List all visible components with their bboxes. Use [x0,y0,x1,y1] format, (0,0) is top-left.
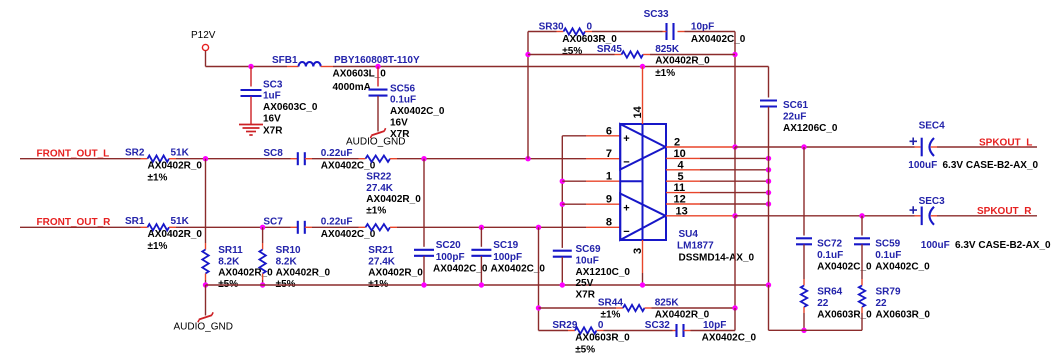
svg-text:6.3V CASE-B2-AX_0: 6.3V CASE-B2-AX_0 [955,240,1051,251]
svg-text:0.1uF: 0.1uF [817,250,843,261]
capacitor SC8 (0.22uF AX0402C_0) [263,148,375,172]
svg-text:10pF: 10pF [691,21,714,32]
wire SPKOUT_R down to SC59 [861,216,863,236]
svg-text:0.1uF: 0.1uF [875,250,901,261]
junction on power line at U4 pin 14 [640,64,645,69]
wire SC69 bottom to rail [561,257,563,285]
wire FRONT_OUT_L left [20,158,141,160]
svg-text:825K: 825K [655,297,680,308]
resistor SR45 (825K AX0402R_0 +/-1%) [597,44,710,79]
resistor SR79 (22 AX0603R_0) [859,279,931,321]
wire SC59 to SR79 [861,244,863,279]
U4 pin 13 output [666,205,735,217]
wire SR22 to U4 pin 7 [397,158,586,160]
svg-text:12: 12 [674,194,686,206]
svg-text:AX0603R_0: AX0603R_0 [876,310,931,321]
junction rail at SC19 [479,282,484,287]
svg-text:AX0402R_0: AX0402R_0 [366,194,421,205]
svg-text:0: 0 [587,21,593,32]
svg-text:7: 7 [606,148,612,160]
svg-text:SR11: SR11 [218,245,243,256]
svg-text:0: 0 [598,320,604,331]
junction rail at SR10 [260,282,265,287]
svg-text:22: 22 [817,298,829,309]
capacitor SC3 (1uF AX0603C_0 16V X7R) [241,67,318,137]
U4 pin 5 [666,171,769,183]
svg-text:0.22uF: 0.22uF [321,148,353,159]
svg-text:0.1uF: 0.1uF [390,95,416,106]
wire SC19 top [480,227,482,247]
op-amp U4 (LM1877 DSSMD14-AX_0) [620,124,754,263]
resistor SR11 (8.2K AX0402R_0 +/-5%) [202,243,273,290]
wire P12V power line left [206,66,288,68]
wire SR1 to SC7 [176,226,291,228]
wire SC20 bottom to rail [423,256,425,285]
power ground symbol [239,125,263,136]
wire FRONT_OUT_R left [20,226,141,228]
svg-text:100pF: 100pF [493,252,522,263]
svg-text:X7R: X7R [263,125,283,136]
U4 pin 11 [666,182,769,194]
junction FRONT_OUT_R / SR10 node [260,225,265,230]
svg-text:SC8: SC8 [263,148,283,159]
wire SC32 right vertical [734,308,736,331]
svg-text:FRONT_OUT_L: FRONT_OUT_L [37,149,110,160]
svg-text:±1%: ±1% [148,241,168,252]
svg-text:SR45: SR45 [597,44,622,55]
junction rail at pin 3 [640,282,645,287]
U4 pin 7 stub [586,148,620,160]
capacitor SC72 (0.1uF AX0402C_0) [796,238,872,272]
svg-text:825K: 825K [655,44,680,55]
svg-text:2: 2 [674,137,680,149]
svg-text:6: 6 [606,125,612,137]
svg-text:10uF: 10uF [576,255,599,266]
junction pin 11 / SC61 [766,190,771,195]
svg-text:14: 14 [632,105,644,118]
svg-text:SC32: SC32 [645,320,670,331]
resistor SR1 (51K AX0402R_0 +/-1%) [125,216,202,252]
svg-text:AX0603R_0: AX0603R_0 [575,332,630,343]
svg-text:AX0402C_0: AX0402C_0 [491,264,546,275]
svg-text:51K: 51K [171,147,190,158]
wire SR29 to SC32 [604,330,673,332]
junction pin 4 / SC61 [766,167,771,172]
svg-text:AUDIO_GND: AUDIO_GND [174,322,233,333]
capacitor SC33 (10pF AX0402C_0) [644,9,746,45]
junction FRONT_OUT_L / feedback node [525,156,530,161]
svg-text:SC59: SC59 [875,239,900,250]
capacitor SEC3 (100uF 6.3V CASE-B2-AX_0, polarized) [910,196,1052,251]
wire SR44 node vertical [538,227,540,330]
junction rail at SC20 [421,282,426,287]
wire SC72 to SR64 [803,244,805,279]
svg-text:51K: 51K [171,216,190,227]
svg-text:27.4K: 27.4K [368,256,395,267]
junction rail at SR11 [203,282,208,287]
svg-text:SR10: SR10 [276,245,301,256]
svg-text:SR29: SR29 [552,320,577,331]
svg-text:±5%: ±5% [575,345,595,355]
capacitor SC61 (22uF AX1206C_0) [760,67,838,135]
junction rail right end [766,282,771,287]
wire feedback right vertical top [734,32,736,148]
svg-text:SR64: SR64 [817,287,842,298]
svg-text:SR44: SR44 [598,297,623,308]
ferrite bead SFB1 (PBY160808T-110Y AX0603L_0 4000mA) [272,55,420,93]
power port AUDIO_GND (SC56) [346,128,405,147]
wire power line to SC61 [333,66,769,68]
svg-text:10: 10 [674,148,686,160]
svg-text:SC61: SC61 [783,100,808,111]
wire FRONT_OUT_R node down to SR10 [262,227,264,243]
capacitor SC20 (100pF AX0402C_0) [414,240,488,275]
U4 pin 14 [632,67,644,125]
junction pin 12 / SC61 [766,201,771,206]
net label FRONT_OUT_R [37,217,112,228]
wire feedback left vertical [527,32,529,159]
capacitor SC7 (0.22uF AX0402C_0) [263,217,375,240]
svg-text:−: − [623,156,629,168]
svg-text:SC72: SC72 [817,239,842,250]
junction SR64 bottom [801,328,806,333]
svg-text:SR22: SR22 [366,172,391,183]
power port P12V [191,30,216,51]
svg-text:SC20: SC20 [436,240,461,251]
junction SR45 line right [732,52,737,57]
svg-text:6.3V CASE-B2-AX_0: 6.3V CASE-B2-AX_0 [943,160,1039,171]
wire SC32 to right corner [691,330,736,332]
capacitor SEC4 (100uF 6.3V CASE-B2-AX_0, polarized) [908,121,1038,172]
ground rail [206,284,769,286]
svg-text:SR30: SR30 [539,22,564,33]
svg-text:AX0402R_0: AX0402R_0 [148,229,203,240]
net label FRONT_OUT_L [37,149,110,160]
svg-text:SC33: SC33 [644,9,669,20]
capacitor SC59 (0.1uF AX0402C_0) [854,238,930,272]
svg-text:SR2: SR2 [125,148,145,159]
svg-text:AX0402R_0: AX0402R_0 [276,268,331,279]
svg-text:SPKOUT_R: SPKOUT_R [977,206,1032,217]
svg-text:SFB1: SFB1 [272,55,298,66]
svg-text:±1%: ±1% [366,206,386,217]
junction rail at SC69 [560,282,565,287]
wire SC20 top [423,159,425,247]
svg-text:P12V: P12V [191,30,216,41]
svg-text:27.4K: 27.4K [366,183,393,194]
wire SR79 to bottom line [861,313,863,330]
wire SR45 line right [650,54,735,56]
svg-text:22: 22 [876,298,888,309]
svg-text:AX0402C_0: AX0402C_0 [321,229,376,240]
U4 pin 9 stub [562,194,620,206]
svg-text:100uF: 100uF [908,160,937,171]
svg-text:100pF: 100pF [436,252,465,263]
junction on power line at SC3 [248,64,253,69]
wire SC33 to feedback right [685,31,736,33]
wire feedback vertical pin13-SR44 [734,216,736,308]
junction on power line at SC56 [375,64,380,69]
svg-text:FRONT_OUT_R: FRONT_OUT_R [37,217,112,228]
svg-text:AX1210C_0: AX1210C_0 [576,267,631,278]
junction pin 1 node [560,179,565,184]
svg-text:SEC4: SEC4 [919,121,946,132]
wire SC19 bottom to rail [480,256,482,285]
wire pin2 to SEC4 [735,146,915,148]
svg-text:0.22uF: 0.22uF [321,217,353,228]
junction FRONT_OUT_R / SR44 node [536,225,541,230]
junction pin 9 node [560,202,565,207]
wire U4 pin 6 branch [562,136,586,248]
svg-text:LM1877: LM1877 [677,241,714,252]
capacitor SC69 (10uF AX1210C_0 25V X7R) [553,244,631,301]
svg-text:AX0402C_0: AX0402C_0 [433,264,488,275]
wire rail to Zobel ground [769,285,863,330]
resistor SR29 (0 AX0603R_0 +/-5%) [552,320,630,355]
svg-text:9: 9 [606,194,612,206]
svg-text:±1%: ±1% [601,309,621,320]
wire FRONT_OUT_L node down to SR11 [205,159,207,243]
net label SPKOUT_R [977,206,1032,217]
power port AUDIO_GND (bottom) [174,312,233,332]
U4 pin 1 stub [562,171,620,183]
svg-text:SC3: SC3 [263,79,283,90]
svg-text:13: 13 [676,205,688,217]
svg-text:SEC3: SEC3 [919,196,946,207]
svg-text:±1%: ±1% [148,173,168,184]
net label SPKOUT_L [979,137,1032,148]
junction SR44 right / feedback [732,305,737,310]
wire SR29 line left [539,330,569,332]
wire SEC4 to SPKOUT_L [931,146,1037,148]
svg-text:22uF: 22uF [783,112,806,123]
svg-text:SC56: SC56 [390,83,415,94]
svg-text:SR21: SR21 [368,245,393,256]
svg-text:SC69: SC69 [576,244,601,255]
U4 pin 3 [632,240,644,285]
resistor SR44 (825K AX0402R_0 +/-1%) [598,297,710,320]
wire SR10 to rail [262,280,264,285]
svg-text:AX1206C_0: AX1206C_0 [783,123,838,134]
wire SPKOUT_L down to SC72 [803,147,805,236]
resistor SR21 (27.4K AX0402R_0 +/-1%) [359,224,424,290]
svg-text:±1%: ±1% [655,68,675,79]
svg-text:4: 4 [678,159,685,171]
U4 pin 10 [666,148,769,160]
wire SR45 line left [528,54,615,56]
svg-text:AX0402C_0: AX0402C_0 [702,332,757,343]
svg-text:10pF: 10pF [703,320,726,331]
svg-text:SU4: SU4 [679,229,699,240]
junction pin 10 / SC61 [766,156,771,161]
svg-text:AX0402R_0: AX0402R_0 [655,56,710,67]
svg-text:AX0402R_0: AX0402R_0 [218,268,273,279]
svg-text:4000mA: 4000mA [333,82,371,93]
svg-text:AX0402R_0: AX0402R_0 [655,309,710,320]
wire SR21 to U4 pin 8 [397,226,586,228]
wire SR11 to rail [205,280,207,285]
U4 pin 6 stub [586,125,620,137]
resistor SR10 (8.2K AX0402R_0 +/-5%) [259,243,330,290]
wire SEC3 to SPKOUT_R [931,215,1037,217]
wire feedback vertical pin2-pin13 [734,147,736,216]
svg-text:AX0402C_0: AX0402C_0 [875,262,930,273]
svg-text:25V: 25V [576,278,594,289]
svg-text:3: 3 [632,248,644,254]
svg-text:X7R: X7R [576,290,596,301]
resistor SR30 (0 AX0603R_0 +/-5%) [539,21,618,57]
svg-text:11: 11 [674,182,686,194]
wire SR44 line right [652,307,736,309]
svg-text:AX0402C_0: AX0402C_0 [691,34,746,45]
junction SR45 line left [525,52,530,57]
svg-text:5: 5 [678,171,684,183]
svg-text:16V: 16V [263,114,281,125]
U4 pin 8 stub [586,217,620,229]
resistor SR22 (27.4K AX0402R_0 +/-1%) [359,156,422,217]
wire SR2 to SC8 [176,158,291,160]
junction pin 5 / SC61 [766,179,771,184]
svg-text:+: + [623,133,629,145]
resistor SR64 (22 AX0603R_0) [801,279,872,321]
wire SR44 line left [539,307,617,309]
U4 pin 12 [666,194,769,206]
wire SR64 to bottom line [803,313,805,330]
wire rail down to AUDIO_GND [205,285,207,316]
junction pin 13 / feedback [732,213,737,218]
svg-text:AX0603C_0: AX0603C_0 [263,102,318,113]
svg-text:SPKOUT_L: SPKOUT_L [979,137,1032,148]
junction FRONT_OUT_R / SC19 node [479,225,484,230]
junction FRONT_OUT_L / SR11 node [203,156,208,161]
svg-text:16V: 16V [390,118,408,129]
resistor SR2 (51K AX0402R_0 +/-1%) [125,147,202,183]
svg-text:AX0402C_0: AX0402C_0 [390,106,445,117]
junction SPKOUT_L / SC72 node [801,144,806,149]
svg-text:8: 8 [606,217,612,229]
junction SR44 line left [536,305,541,310]
svg-text:AX0402C_0: AX0402C_0 [817,262,872,273]
svg-text:AX0402R_0: AX0402R_0 [368,268,423,279]
svg-text:DSSMD14-AX_0: DSSMD14-AX_0 [679,252,755,263]
svg-text:AX0603R_0: AX0603R_0 [817,310,872,321]
wire SC61 down to rail [768,107,770,285]
capacitor SC32 (10pF AX0402C_0) [645,320,757,344]
junction pin 2 / feedback [732,144,737,149]
svg-text:SR79: SR79 [876,287,901,298]
svg-text:100uF: 100uF [921,240,950,251]
svg-text:−: − [623,226,629,238]
wire SR30 line left [528,31,557,33]
svg-text:+: + [623,202,629,214]
svg-text:8.2K: 8.2K [218,256,240,267]
svg-text:AX0402R_0: AX0402R_0 [148,160,203,171]
junction FRONT_OUT_L / SC20 node [421,156,426,161]
U4 pin 4 [666,159,769,171]
capacitor SC19 (100pF AX0402C_0) [471,240,545,275]
svg-text:AX0402C_0: AX0402C_0 [321,161,376,172]
wire pin13 to SEC3 [735,215,915,217]
svg-text:1: 1 [606,171,612,183]
svg-text:8.2K: 8.2K [276,256,298,267]
wire SC8 to SR22 [312,158,359,160]
svg-text:SR1: SR1 [125,216,145,227]
wire SR30 to SC33 [592,31,663,33]
U4 pin 2 output [666,137,735,149]
svg-text:AUDIO_GND: AUDIO_GND [346,137,405,148]
wire P12V vertical [205,51,207,67]
svg-text:SC7: SC7 [263,217,283,228]
junction SPKOUT_R / SC59 node [859,213,864,218]
svg-text:1uF: 1uF [263,91,281,102]
wire SC7 to SR21 [312,226,359,228]
svg-text:SC19: SC19 [493,240,518,251]
capacitor SC56 (0.1uF AX0402C_0 16V X7R) [369,67,445,140]
svg-text:±5%: ±5% [562,46,582,57]
